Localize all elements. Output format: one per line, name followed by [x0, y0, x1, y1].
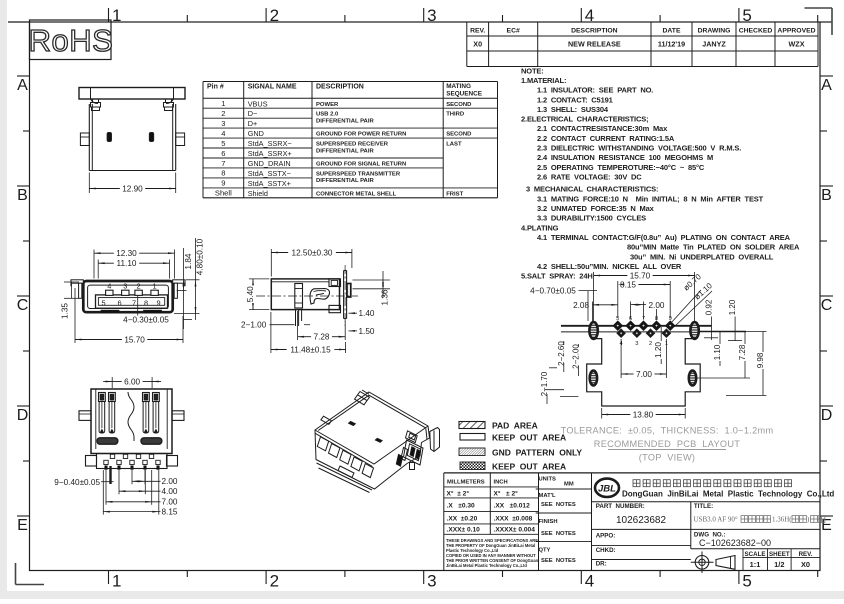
svg-text:X° ± 2°: X° ± 2° — [494, 489, 519, 497]
svg-text:2.6 RATE VOLTAGE: 30V DC: 2.6 RATE VOLTAGE: 30V DC — [537, 172, 642, 181]
svg-text:2−1.00: 2−1.00 — [241, 321, 267, 330]
svg-text:8: 8 — [221, 169, 225, 178]
view: connector top view — [79, 88, 185, 171]
svg-text:2.08: 2.08 — [573, 301, 589, 310]
svg-text:2.00: 2.00 — [162, 477, 178, 486]
svg-text:MATING: MATING — [446, 83, 471, 90]
svg-text:EC#: EC# — [507, 27, 520, 34]
dimension 1.20 (pin rows) — [654, 327, 663, 364]
dimension 4-0.30±0.05 — [123, 296, 192, 325]
svg-text:4−0.70±0.05: 4−0.70±0.05 — [530, 286, 576, 295]
PCB layout: keep-out outline — [587, 332, 701, 406]
svg-text:4.2 SHELL:50u”MIN. NICKEL A: 4.2 SHELL:50u”MIN. NICKEL ALL OVER — [537, 262, 682, 271]
svg-text:11.48±0.15: 11.48±0.15 — [290, 345, 331, 354]
svg-text:THIRD: THIRD — [446, 112, 464, 118]
legend: GND PATTERN ONLY — [459, 448, 582, 458]
dimension 6.00 — [103, 377, 161, 388]
svg-text:StdA_SSTX−: StdA_SSTX− — [248, 169, 291, 178]
svg-text:7.28: 7.28 — [738, 344, 747, 360]
svg-text:.X ±0.30: .X ±0.30 — [447, 503, 476, 510]
svg-text:KEEP OUT AREA: KEEP OUT AREA — [492, 462, 566, 472]
svg-text:9: 9 — [221, 179, 225, 188]
dimension 12.90 — [89, 173, 175, 194]
svg-text:6.00: 6.00 — [124, 377, 140, 386]
svg-text:SEE NOTES: SEE NOTES — [541, 502, 576, 508]
svg-text:C: C — [821, 297, 833, 314]
svg-text:2: 2 — [270, 572, 279, 591]
svg-text:CONNECTOR METAL SHELL: CONNECTOR METAL SHELL — [316, 191, 397, 197]
svg-text:2.4 INSULATION RESISTANCE 1: 2.4 INSULATION RESISTANCE 100 MEGOHMS M — [537, 153, 713, 162]
svg-text:X° ± 2°: X° ± 2° — [447, 489, 470, 497]
svg-text:4: 4 — [221, 129, 225, 138]
svg-text:FRIST: FRIST — [446, 191, 463, 197]
svg-text:DESCRIPTION: DESCRIPTION — [316, 84, 364, 91]
PCB layout: pad row lines — [561, 326, 712, 332]
svg-text:12.90: 12.90 — [122, 184, 143, 193]
dimension 15.70 (pcb) — [594, 271, 695, 321]
svg-text:DIFFERENTIAL PAIR: DIFFERENTIAL PAIR — [316, 148, 374, 154]
dimension 2-1.00 — [241, 321, 310, 330]
svg-text:7: 7 — [132, 298, 136, 307]
scale sheet rev — [745, 551, 813, 569]
svg-text:4.80±0.10: 4.80±0.10 — [195, 238, 204, 275]
dimension 1.40 — [349, 309, 375, 318]
svg-text:E: E — [17, 517, 28, 534]
svg-text:DATE: DATE — [663, 27, 681, 34]
zone column labels (bottom) — [109, 571, 818, 591]
dimension 7.00 (pcb) — [621, 339, 666, 379]
revision table — [467, 22, 818, 67]
svg-text:SIGNAL NAME: SIGNAL NAME — [248, 84, 297, 91]
svg-text:C−102623682−00: C−102623682−00 — [699, 538, 771, 548]
dimensions 2-2.60 / 2-2.00 / 2-1.70 — [540, 341, 580, 404]
svg-text:.XXX± 0.10: .XXX± 0.10 — [447, 526, 481, 533]
svg-text:B: B — [821, 187, 832, 204]
projection symbol — [691, 552, 735, 574]
svg-text:GND PATTERN ONLY: GND PATTERN ONLY — [492, 448, 582, 458]
svg-text:WZX: WZX — [789, 39, 805, 48]
PCB layout: pin pads row 5-9 — [613, 316, 676, 331]
svg-text:2.ELECTRICAL CHARACTERISTICS;: 2.ELECTRICAL CHARACTERISTICS; — [521, 115, 648, 124]
svg-text:SEE NOTES: SEE NOTES — [541, 558, 576, 564]
svg-text:5.40: 5.40 — [246, 286, 255, 302]
legend: KEEP OUT AREA (checker) — [460, 462, 566, 472]
svg-text:2.2 CONTACT CURRENT RATING:: 2.2 CONTACT CURRENT RATING:1.5A — [537, 134, 675, 143]
pin assignment table — [203, 82, 498, 198]
svg-text:TOLERANCE: ±0.05, THICKNESS:: TOLERANCE: ±0.05, THICKNESS: 1.0~1.2mm — [561, 426, 774, 436]
svg-text:1.84: 1.84 — [184, 253, 193, 269]
svg-text:102623682: 102623682 — [616, 515, 666, 526]
svg-text:SUPERSPEED TRANSMITTER: SUPERSPEED TRANSMITTER — [316, 171, 401, 177]
svg-text:3: 3 — [123, 282, 127, 291]
view: connector side view — [256, 265, 358, 326]
svg-text:12.30: 12.30 — [116, 249, 137, 258]
svg-text:UNITS: UNITS — [539, 477, 557, 483]
svg-text:REV.: REV. — [799, 551, 813, 558]
svg-text:2−2.00: 2−2.00 — [571, 344, 580, 369]
svg-text:D: D — [821, 407, 833, 424]
company name (english) — [622, 489, 834, 498]
company name (chinese) — [633, 480, 792, 487]
title field — [694, 503, 825, 524]
svg-text:9: 9 — [156, 298, 160, 307]
svg-text:3.1 MATING FORCE:10 N Mi: 3.1 MATING FORCE:10 N Min INITIAL; 8 N M… — [537, 194, 764, 203]
dimension 2.00 (pcb) — [631, 301, 665, 320]
svg-text:6: 6 — [117, 298, 121, 307]
svg-text:80u”MIN Matte Tin PLATED O: 80u”MIN Matte Tin PLATED ON SOLDER AREA — [627, 243, 800, 252]
dimensions 1.10 / 7.28 / 9.98 — [697, 332, 767, 396]
svg-text:1.1 INSULATOR: SEE PART NO: 1.1 INSULATOR: SEE PART NO. — [537, 86, 653, 95]
svg-text:SHEET: SHEET — [769, 551, 790, 558]
svg-text:1.3 SHELL: SUS304: 1.3 SHELL: SUS304 — [537, 105, 609, 114]
RoHS logo box — [29, 20, 114, 60]
dimensions ø0.70 / ø1.10 — [671, 272, 714, 327]
svg-text:2.5 OPERATING TEMPEROTURE:−4: 2.5 OPERATING TEMPEROTURE:−40°C ~ 85°C — [537, 163, 705, 172]
svg-text:4: 4 — [585, 572, 594, 591]
svg-text:8.15: 8.15 — [162, 508, 178, 517]
svg-text:RECOMMENDED PCB LAYOUT: RECOMMENDED PCB LAYOUT — [594, 439, 740, 449]
dimension 11.10 — [98, 259, 169, 278]
svg-text:DIFFERENTIAL PAIR: DIFFERENTIAL PAIR — [316, 118, 374, 124]
dimensions 2.00 / 4.00 / 7.00 / 8.15 — [103, 470, 178, 517]
dimension 12.50±0.30 — [271, 248, 352, 276]
legend: KEEP OUT AREA (open) — [460, 433, 566, 443]
svg-text:SECOND: SECOND — [446, 102, 471, 108]
svg-text:MILLMETERS: MILLMETERS — [447, 479, 485, 485]
svg-text:FINISH: FINISH — [539, 519, 558, 525]
svg-text:RoHS: RoHS — [29, 23, 114, 58]
svg-text:1.20: 1.20 — [728, 299, 737, 315]
svg-text:SUPERSPEED RECEIVER: SUPERSPEED RECEIVER — [316, 142, 389, 148]
dimension 9-0.40±0.05 — [54, 466, 113, 487]
dimension 7.28 (side view) — [298, 311, 346, 342]
proprietary fine print — [446, 538, 539, 568]
PCB layout: mounting oval pads — [589, 322, 698, 385]
svg-text:Shield: Shield — [248, 189, 268, 198]
svg-text:NOTE:: NOTE: — [521, 66, 544, 75]
dimension 2.08 (pcb) — [573, 301, 618, 322]
svg-text:1: 1 — [221, 99, 225, 108]
svg-text:Shell: Shell — [215, 189, 232, 198]
svg-text:11/12'19: 11/12'19 — [658, 39, 685, 48]
svg-text:TITLE:: TITLE: — [694, 503, 713, 510]
svg-text:1.50: 1.50 — [359, 327, 375, 336]
svg-text:GROUND FOR SIGNAL RETURN: GROUND FOR SIGNAL RETURN — [316, 162, 406, 168]
svg-text:13.80: 13.80 — [633, 410, 654, 419]
svg-text:SEE NOTES: SEE NOTES — [541, 531, 576, 537]
title block grid — [444, 473, 820, 571]
svg-text:7.28: 7.28 — [314, 333, 330, 342]
svg-text:APPO:: APPO: — [596, 533, 616, 540]
dimension 4.80±0.10 — [174, 238, 204, 320]
approvals — [596, 533, 616, 568]
PCB layout: pin pads row 1-4 — [616, 328, 671, 346]
notes text block — [521, 66, 800, 280]
svg-text:DR:: DR: — [596, 561, 607, 568]
svg-text:JBL: JBL — [598, 483, 616, 494]
svg-text:.XXXX± 0.004: .XXXX± 0.004 — [494, 526, 536, 533]
svg-text:12.50±0.30: 12.50±0.30 — [292, 248, 333, 257]
svg-text:REV.: REV. — [470, 27, 485, 34]
svg-text:3 MECHANICAL CHARACTERISTICS: 3 MECHANICAL CHARACTERISTICS: — [526, 185, 658, 194]
zone row labels (right) — [820, 76, 833, 534]
view: connector bottom view — [79, 389, 184, 469]
svg-text:5: 5 — [221, 139, 225, 148]
svg-text:2.00: 2.00 — [649, 301, 665, 310]
svg-text:PART NUMBER:: PART NUMBER: — [596, 503, 645, 510]
dimension 13.80 — [602, 408, 686, 419]
svg-text:2.1 CONTACTRESISTANCE:30m Ma: 2.1 CONTACTRESISTANCE:30m Max — [537, 124, 668, 133]
svg-text:0.92: 0.92 — [705, 299, 714, 315]
svg-text:1.40: 1.40 — [359, 309, 375, 318]
svg-text:2.3 DIELECTRIC WITHSTANDING: 2.3 DIELECTRIC WITHSTANDING VOLTAGE:500 … — [537, 144, 741, 153]
svg-text:3: 3 — [427, 6, 436, 25]
zone row labels (left) — [17, 76, 30, 534]
svg-text:QTY: QTY — [539, 547, 551, 553]
svg-text:(TOP VIEW): (TOP VIEW) — [639, 453, 696, 463]
svg-text:6: 6 — [221, 149, 225, 158]
svg-text:4.PLATING: 4.PLATING — [521, 223, 559, 232]
view: connector front view — [71, 280, 185, 313]
dimension 1.35 — [61, 282, 79, 319]
dimension 1.84 — [177, 248, 193, 329]
svg-text:StdA_SSRX+: StdA_SSRX+ — [248, 149, 292, 158]
svg-text:3: 3 — [427, 572, 436, 591]
svg-text:SECOND: SECOND — [446, 132, 471, 138]
zone column labels (top) — [109, 6, 818, 25]
svg-text:4−0.30±0.05: 4−0.30±0.05 — [123, 316, 169, 325]
svg-text:B: B — [17, 187, 28, 204]
svg-text:4.1 TERMINAL CONTACT:G/F(0.8: 4.1 TERMINAL CONTACT:G/F(0.8u” Au) PLATI… — [537, 233, 791, 242]
svg-text:9.98: 9.98 — [756, 352, 765, 368]
svg-text:.XX ±0.20: .XX ±0.20 — [447, 515, 478, 522]
svg-text:7.00: 7.00 — [636, 370, 652, 379]
svg-text:3: 3 — [221, 119, 225, 128]
svg-text:3.3 DURABILITY:1500 CYCLES: 3.3 DURABILITY:1500 CYCLES — [537, 214, 646, 223]
svg-text:A: A — [17, 77, 28, 94]
svg-text:C: C — [17, 297, 29, 314]
units column text — [539, 477, 576, 565]
svg-text:15.70: 15.70 — [124, 335, 145, 344]
svg-text:LAST: LAST — [446, 142, 462, 148]
svg-text:7.00: 7.00 — [162, 498, 178, 507]
svg-text:1.36: 1.36 — [381, 289, 390, 305]
tolerance table text — [447, 479, 536, 533]
svg-text:SCALE: SCALE — [745, 551, 766, 558]
svg-text:.XX ±0.012: .XX ±0.012 — [494, 503, 531, 510]
dwg no — [694, 532, 771, 548]
svg-text:DRAWING: DRAWING — [698, 27, 731, 34]
svg-text:A: A — [821, 77, 832, 94]
svg-text:Pin #: Pin # — [207, 84, 224, 91]
company logo — [595, 479, 619, 497]
svg-text:POWER: POWER — [316, 102, 339, 108]
svg-text:3: 3 — [635, 341, 638, 347]
svg-text:DESCRIPTION: DESCRIPTION — [571, 27, 618, 34]
svg-text:5: 5 — [101, 298, 105, 307]
dimensions 0.92 / 1.20 right — [704, 299, 742, 341]
dimension 8.15 (pcb) — [618, 280, 670, 318]
svg-text:1.MATERIAL:: 1.MATERIAL: — [521, 76, 566, 85]
svg-text:D: D — [17, 407, 29, 424]
svg-text:5: 5 — [742, 572, 751, 591]
view: isometric projection — [315, 390, 440, 493]
svg-text:9−0.40±0.05: 9−0.40±0.05 — [54, 478, 100, 487]
svg-text:3.2 UNMATED FORCE:35 N Max: 3.2 UNMATED FORCE:35 N Max — [537, 204, 655, 213]
svg-text:GROUND FOR POWER RETURN: GROUND FOR POWER RETURN — [316, 132, 406, 138]
svg-text:11.10: 11.10 — [117, 259, 137, 268]
svg-text:1.35: 1.35 — [61, 303, 70, 319]
svg-text:MM: MM — [564, 481, 574, 487]
svg-text:2−2.60: 2−2.60 — [557, 341, 566, 366]
svg-text:JANYZ: JANYZ — [702, 39, 726, 48]
dimension 1.50 — [349, 327, 375, 336]
svg-text:StdA_SSRX−: StdA_SSRX− — [248, 139, 292, 148]
svg-text:NEW RELEASE: NEW RELEASE — [568, 39, 621, 48]
svg-text:USB 2.0: USB 2.0 — [316, 112, 339, 118]
svg-text:D−: D− — [248, 109, 258, 118]
svg-text:E: E — [821, 517, 832, 534]
legend: PAD AREA — [459, 421, 538, 431]
svg-text:1.10: 1.10 — [713, 344, 722, 360]
svg-text:8: 8 — [144, 298, 148, 307]
svg-text:1.36H(: 1.36H( — [772, 516, 792, 524]
svg-text:2−1.70: 2−1.70 — [540, 371, 549, 396]
svg-text:CHKD:: CHKD: — [596, 547, 616, 554]
svg-text:X0: X0 — [801, 560, 810, 569]
dimension 4-0.70±0.05 (pcb) — [530, 286, 597, 321]
svg-text:1: 1 — [112, 572, 121, 591]
svg-text:2: 2 — [221, 109, 225, 118]
svg-text:USB3.0 AF 90°: USB3.0 AF 90° — [694, 516, 740, 524]
dimension 5.40 — [246, 279, 269, 310]
dimension 11.48±0.15 — [271, 312, 346, 354]
svg-text:1.2 CONTACT: C5191: 1.2 CONTACT: C5191 — [537, 95, 613, 104]
part number — [596, 503, 667, 526]
svg-text:D+: D+ — [248, 119, 258, 128]
svg-text:SEQUENCE: SEQUENCE — [446, 91, 483, 98]
svg-text:DongGuan JinBiLai Metal Pla: DongGuan JinBiLai Metal Plastic Technolo… — [622, 489, 834, 498]
svg-text:1: 1 — [112, 6, 121, 25]
svg-text:1/2: 1/2 — [774, 560, 784, 569]
svg-text:1:1: 1:1 — [750, 560, 761, 569]
svg-text:1: 1 — [153, 282, 157, 291]
svg-text:2: 2 — [649, 341, 652, 347]
svg-text:KEEP OUT AREA: KEEP OUT AREA — [492, 433, 566, 443]
svg-text:MAT'L: MAT'L — [539, 493, 557, 499]
svg-text:1.20: 1.20 — [654, 342, 663, 358]
svg-text:4: 4 — [107, 282, 111, 291]
svg-text:INCH: INCH — [494, 479, 508, 485]
svg-text:8.15: 8.15 — [620, 280, 636, 289]
svg-text:5.SALT SPRAY: 24H: 5.SALT SPRAY: 24H — [521, 272, 593, 281]
svg-text:30u” MIN. Ni UNDERPLATED O: 30u” MIN. Ni UNDERPLATED OVERALL — [630, 252, 774, 261]
svg-text:GND_DRAIN: GND_DRAIN — [248, 159, 291, 168]
svg-text:X0: X0 — [473, 39, 482, 48]
svg-text:DIFFERENTIAL PAIR: DIFFERENTIAL PAIR — [316, 178, 374, 184]
svg-text:4.00: 4.00 — [162, 487, 178, 496]
svg-text:JinBiLai Metal Plastic Technol: JinBiLai Metal Plastic Technology Co.,Lt… — [446, 563, 527, 568]
svg-text:PAD AREA: PAD AREA — [492, 421, 538, 431]
dimension 15.70 (front view) — [75, 288, 183, 344]
tolerance / pcb layout note — [561, 426, 774, 463]
svg-text:2: 2 — [137, 282, 141, 291]
dimension 1.36 — [353, 271, 391, 305]
svg-text:StdA_SSTX+: StdA_SSTX+ — [248, 179, 291, 188]
svg-text:GND: GND — [248, 129, 264, 138]
svg-text:VBUS: VBUS — [248, 99, 268, 108]
svg-text:15.70: 15.70 — [630, 271, 651, 280]
svg-text:CHECKED: CHECKED — [739, 27, 773, 34]
svg-text:APPROVED: APPROVED — [777, 27, 815, 34]
dimension 12.30 — [94, 249, 175, 278]
svg-text:7: 7 — [221, 159, 225, 168]
svg-text:2: 2 — [270, 6, 279, 25]
svg-text:.XXX ±0.008: .XXX ±0.008 — [494, 515, 533, 522]
